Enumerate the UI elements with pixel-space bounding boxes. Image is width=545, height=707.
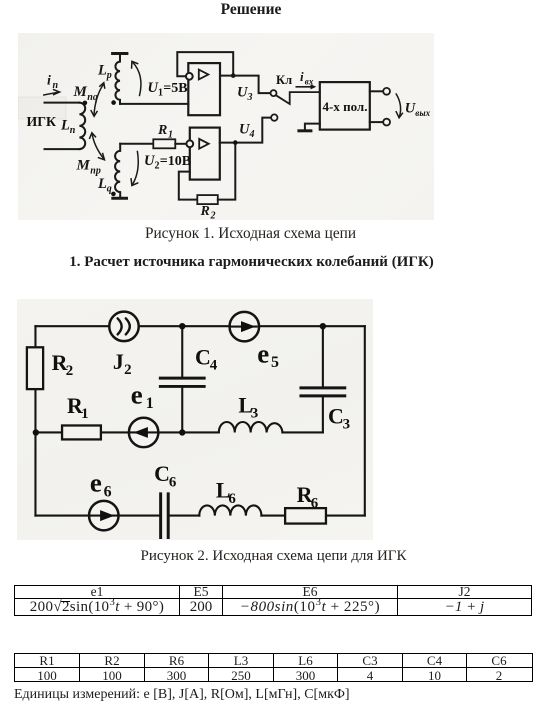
svg-text:4: 4 (249, 129, 255, 140)
svg-text:6: 6 (104, 483, 112, 500)
inductor Lq bottom bar (113, 197, 127, 200)
figure 1 scan background (18, 33, 434, 220)
label R2 (52, 350, 74, 379)
resistor R2 (197, 195, 218, 204)
output node dot U1 (231, 73, 236, 78)
current label i_вх (300, 69, 314, 87)
svg-text:J: J (113, 349, 124, 374)
label J2 (113, 349, 132, 378)
emf source e5 (230, 312, 259, 341)
svg-text:1: 1 (81, 406, 88, 422)
node dot left middle (33, 429, 39, 435)
op-amp U2 inverting input circle (186, 140, 193, 147)
svg-text:i: i (47, 74, 51, 89)
polarity dot Lq (111, 192, 116, 197)
svg-text:6: 6 (169, 474, 177, 490)
svg-text:вых: вых (415, 108, 430, 118)
svg-text:5: 5 (271, 354, 279, 371)
mutual inductance label M_nq (73, 84, 98, 103)
svg-text:e: e (257, 339, 269, 369)
inductor Lq coil (115, 144, 120, 197)
inductor L3 (219, 422, 283, 432)
four-terminal network box (320, 82, 370, 130)
svg-text:вх: вх (305, 77, 314, 87)
wire top left terminal (45, 102, 80, 104)
svg-text:L: L (60, 118, 70, 134)
arrow i_вх (296, 84, 316, 89)
label C6 (154, 461, 177, 490)
resistor R1 (62, 425, 101, 439)
resistor R1 (120, 143, 153, 145)
wire U4 output (220, 118, 271, 143)
svg-text:M: M (73, 84, 88, 100)
wire bottom left terminal (45, 148, 80, 150)
svg-text:np: np (90, 166, 101, 177)
voltage arc U1 (132, 61, 141, 95)
capacitor C6 (161, 494, 169, 538)
node dot C4 bottom (179, 429, 185, 435)
svg-text:1: 1 (158, 88, 163, 99)
svg-text:e: e (131, 379, 143, 409)
svg-text:4: 4 (210, 358, 218, 374)
inductor Ln label (60, 118, 76, 137)
caption figure 2 (0, 548, 545, 565)
svg-text:4-х пол.: 4-х пол. (323, 99, 368, 114)
inductor Lq label (97, 176, 112, 195)
svg-text:3: 3 (247, 92, 253, 103)
label U_вых (405, 101, 431, 119)
svg-text:ИГК: ИГК (27, 114, 57, 129)
polarity dot Lp (111, 100, 116, 105)
polarity dot Ln (83, 101, 88, 106)
emf source e6 (89, 501, 118, 530)
svg-text:L: L (97, 176, 107, 192)
label C3 (328, 403, 350, 432)
svg-text:Кл: Кл (276, 73, 292, 87)
svg-text:2: 2 (66, 363, 73, 379)
op-amp U1 inverting input circle (186, 73, 193, 80)
label R6 (297, 482, 319, 511)
label L3 (238, 393, 258, 422)
mutual inductance label M_np (76, 158, 101, 177)
label R1 (157, 123, 173, 141)
footer units (14, 687, 350, 703)
voltage arc U2 (131, 152, 138, 186)
svg-text:L: L (97, 63, 107, 79)
title (0, 1, 502, 19)
label R2 (200, 204, 216, 222)
op-amp U2 box (190, 128, 220, 180)
output node dot U2 (233, 140, 238, 145)
label L6 (216, 478, 236, 507)
voltage arc U_вых (396, 94, 402, 118)
inductor Ln coil (79, 103, 85, 149)
label U4 (239, 122, 255, 141)
svg-text:1: 1 (146, 395, 154, 412)
wire Lp to op-amp U1 (120, 103, 188, 105)
svg-text:6: 6 (311, 495, 319, 511)
wire top (35, 325, 364, 327)
svg-text:R: R (200, 204, 210, 219)
svg-text:p: p (106, 70, 112, 81)
ground (305, 124, 320, 130)
current label i_n (47, 74, 59, 92)
figure 1 schematic svg (18, 33, 434, 220)
output terminal circle top (383, 88, 390, 95)
svg-text:C: C (328, 403, 344, 428)
switch contact circle top (271, 90, 277, 96)
inductor Lp top bar (113, 52, 127, 55)
op-amp U1 box (188, 63, 220, 115)
node dot C4 top (179, 323, 185, 329)
heading 1 (0, 254, 503, 271)
feedback wire U1 (177, 52, 233, 76)
label U1=5B (148, 80, 188, 99)
figure 2 scan background (17, 299, 373, 540)
inductor L6 (199, 505, 261, 515)
label U2=10B (144, 153, 191, 172)
svg-text:3: 3 (251, 406, 258, 422)
svg-text:i: i (300, 69, 304, 84)
node dot C3 top (320, 323, 326, 329)
output wire top right (370, 90, 383, 92)
label e6 (90, 468, 112, 501)
coupling arrow M_np (90, 133, 105, 160)
wire right (364, 326, 366, 515)
figure 2 schematic svg (17, 299, 373, 540)
svg-text:C: C (195, 345, 211, 370)
feedback wire U2 with R2 (179, 172, 198, 200)
output terminal circle bottom (383, 119, 390, 126)
label e5 (257, 339, 279, 372)
capacitor C4 (181, 326, 183, 432)
emf source e1 (129, 418, 158, 447)
inductor Lp label (97, 63, 112, 82)
label C4 (195, 345, 218, 374)
svg-text:1: 1 (168, 130, 173, 141)
resistor R6 (285, 508, 326, 523)
svg-text:e: e (90, 468, 102, 498)
svg-text:3: 3 (343, 417, 350, 433)
wire bottom (35, 515, 364, 517)
wire U3 output (220, 76, 270, 94)
resistor R2 (27, 347, 43, 389)
table 2 (14, 653, 533, 682)
svg-text:2: 2 (210, 211, 216, 221)
svg-text:2: 2 (124, 362, 131, 378)
arrow for i_n (44, 90, 60, 95)
wire middle (35, 431, 322, 433)
svg-text:M: M (76, 158, 91, 174)
svg-text:R: R (157, 123, 167, 138)
svg-text:n: n (70, 125, 76, 136)
switch blade (276, 92, 320, 104)
capacitor C3 (322, 326, 324, 432)
label R1 (67, 393, 89, 422)
op-amp U1 triangle (199, 70, 209, 80)
inductor Lp coil (115, 54, 120, 104)
coupling arrow M_nq (91, 83, 105, 117)
svg-text:C: C (154, 461, 170, 486)
svg-text:q: q (107, 184, 112, 195)
label U3 (237, 85, 253, 104)
switch contact circle bottom (271, 114, 277, 120)
svg-text:2: 2 (155, 161, 160, 172)
op-amp U2 triangle (199, 139, 209, 149)
scan bleed-through box (18, 97, 66, 119)
svg-text:=5В: =5В (163, 81, 187, 96)
current source J2 (109, 312, 138, 341)
svg-text:6: 6 (228, 491, 236, 507)
wire left (34, 326, 36, 515)
caption figure 1 (0, 225, 501, 243)
table 1 (14, 585, 532, 616)
svg-text:=10В: =10В (160, 154, 191, 169)
label e1 (131, 379, 154, 412)
output wire bottom right (370, 121, 383, 123)
